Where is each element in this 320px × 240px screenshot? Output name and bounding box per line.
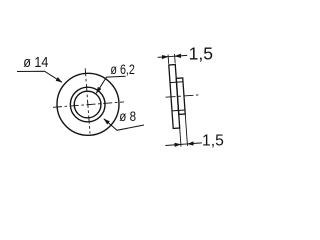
svg-text:ø 6,2: ø 6,2 — [110, 61, 135, 77]
leader ø14 — [17, 71, 62, 82]
leader ø6,2 — [96, 76, 125, 93]
svg-text:1,5: 1,5 — [189, 43, 213, 63]
bottom dim line right with arrow — [187, 143, 201, 144]
bottom dim line left with arrow — [165, 144, 180, 145]
inner circle ø6.2 — [74, 91, 101, 118]
top dim line right with arrow — [175, 54, 187, 57]
leader ø8 — [104, 119, 144, 131]
svg-text:ø 14: ø 14 — [23, 55, 48, 71]
svg-text:1,5: 1,5 — [202, 132, 224, 149]
hole lower edge — [172, 109, 185, 112]
side centerline — [166, 95, 199, 97]
side view group (rotated ~4deg CCW like the scan) — [158, 53, 202, 148]
hole upper edge — [170, 81, 183, 84]
top dim line left with arrow — [158, 56, 168, 59]
bottom dim middle segment — [181, 143, 187, 145]
horizontal centerline — [53, 102, 124, 107]
top dim extension line right — [174, 54, 177, 63]
svg-text:ø 8: ø 8 — [119, 109, 136, 124]
vertical centerline — [85, 68, 90, 133]
outer circle ø14 — [57, 73, 119, 135]
boss rectangle ø8 x 1.5 — [176, 78, 185, 115]
bottom dim extension line left — [180, 128, 181, 147]
front view: washer — [53, 68, 124, 135]
flange rectangle ø14 x 1.5 — [169, 65, 180, 129]
top dim extension line left — [167, 55, 170, 64]
bottom dim extension line right — [185, 114, 187, 146]
middle circle ø8 — [70, 87, 105, 122]
top dim middle segment — [168, 55, 174, 57]
